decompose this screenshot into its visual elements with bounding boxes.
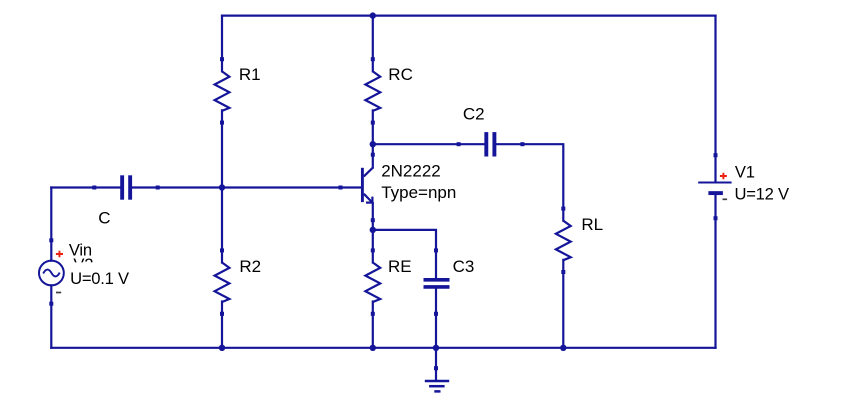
resistor RE: [365, 263, 380, 303]
wire top rail: [222, 15, 716, 17]
pin squares: [49, 57, 717, 370]
wire base node to R2: [221, 188, 223, 263]
wire C2 to RL corner: [496, 144, 563, 221]
svg-text:U=12 V: U=12 V: [735, 185, 789, 204]
resistor RC: [365, 71, 380, 111]
wire V1 column lower: [714, 195, 716, 348]
svg-text:RL: RL: [581, 215, 603, 234]
capacitor C3: [424, 280, 450, 287]
wire left column lower: [50, 285, 52, 348]
svg-text:2N2222: 2N2222: [381, 162, 441, 181]
svg-text:C2: C2: [463, 104, 485, 123]
ground: [425, 381, 449, 391]
source V1 (battery): [698, 183, 731, 194]
svg-text:C: C: [98, 208, 110, 227]
resistor R1: [215, 71, 230, 111]
wire capacitor C to base node: [132, 186, 222, 188]
V1 minus sign: [723, 198, 728, 200]
svg-text:R1: R1: [239, 65, 261, 84]
wire R2 to bottom rail: [221, 302, 223, 348]
wire emitter node to C3 branch: [373, 230, 436, 278]
wire R1 column top: [221, 16, 223, 72]
wire emitter node to RE: [372, 230, 374, 263]
capacitor C: [122, 175, 130, 199]
wire collector node to transistor collector: [372, 144, 374, 167]
wire left column upper (input node): [50, 188, 52, 261]
transistor Q1 2N2222: [362, 168, 372, 203]
Vin plus sign: [56, 251, 63, 258]
svg-text:U=0.1 V: U=0.1 V: [70, 269, 129, 288]
source Vin (AC): [39, 261, 64, 286]
svg-text:R2: R2: [239, 257, 261, 276]
wire RL to bottom rail: [562, 260, 564, 348]
svg-text:Type=npn: Type=npn: [381, 183, 456, 202]
svg-text:RC: RC: [388, 65, 413, 84]
Vin minus sign: [56, 292, 61, 294]
wire V1 column upper: [714, 16, 716, 182]
wire RC column top: [372, 16, 374, 72]
wire transistor emitter to emitter node: [372, 203, 374, 230]
capacitor C2: [486, 132, 494, 156]
V1 plus sign: [720, 173, 727, 180]
wire collector node to C2: [373, 143, 485, 145]
resistor RL: [556, 221, 571, 261]
wire RC to collector node: [372, 110, 374, 144]
svg-text:C3: C3: [453, 257, 475, 276]
wire input to capacitor C: [51, 186, 120, 188]
wire R1 to base node: [221, 110, 223, 187]
wire bottom rail: [51, 347, 715, 349]
wire ground stub: [435, 348, 437, 380]
resistor R2: [215, 263, 230, 303]
svg-text:V1: V1: [735, 162, 755, 181]
svg-text:RE: RE: [388, 257, 412, 276]
wire base node to transistor base: [222, 186, 361, 188]
wire RE to bottom rail: [372, 302, 374, 348]
wire C3 to bottom rail: [435, 289, 437, 348]
